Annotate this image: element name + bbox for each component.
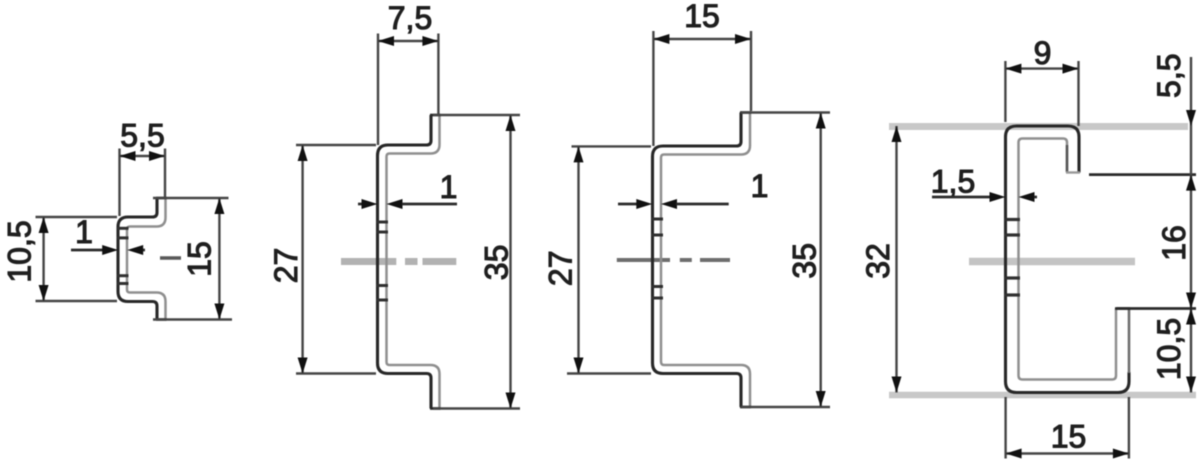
profile P4 inner face outline	[1019, 139, 1117, 380]
dimension 32 of P4	[860, 126, 902, 393]
svg-text:1: 1	[751, 168, 769, 204]
dimension 16 of P4 (right middle)	[1117, 225, 1197, 308]
profile P4 (G32 rail) top extension line gray	[889, 123, 1188, 130]
dimension 5,5 of P1	[120, 118, 166, 217]
svg-text:9: 9	[1034, 35, 1052, 71]
dimension 1 (thickness) of P2	[358, 169, 457, 209]
dimension 5,5 of P4 (right top)	[1089, 53, 1196, 392]
profile P3 web slot tick marks	[651, 219, 663, 298]
svg-text:5,5: 5,5	[120, 118, 164, 154]
profile P2 (TS35x7.5 rail) centerline	[341, 258, 456, 265]
dimension 27 of P3	[543, 146, 652, 373]
profile P4 bottom extension line gray	[889, 392, 1196, 399]
svg-text:10,5: 10,5	[2, 220, 38, 282]
profile P4 outer face outline	[1006, 126, 1130, 393]
dimension 1 (thickness) of P3	[618, 168, 768, 209]
svg-text:35: 35	[479, 245, 515, 281]
profile P3 inner face outline	[661, 113, 750, 408]
profile P1 web slot tick marks	[117, 228, 129, 283]
profile P3 (TS35x15 rail) centerline	[617, 258, 730, 262]
dimension 10,5 of P4 (right bottom)	[1151, 309, 1196, 393]
svg-text:35: 35	[787, 243, 823, 279]
profile P1 inner face outline	[127, 198, 166, 320]
svg-text:1,5: 1,5	[931, 164, 975, 200]
dimension 1,5 (thickness) of P4	[931, 164, 1037, 203]
profile P1 (TS15 rail) centerline dash	[160, 256, 181, 260]
dimension 15 of P3	[653, 0, 751, 146]
svg-text:10,5: 10,5	[1151, 318, 1187, 380]
svg-text:15: 15	[182, 241, 218, 277]
profile P4 web slot tick marks	[1004, 220, 1020, 296]
dimension 1 (thickness) of P1	[71, 214, 145, 255]
svg-text:32: 32	[860, 243, 896, 279]
dimension 7,5 of P2	[378, 0, 438, 145]
dimension 27 of P2	[268, 145, 376, 374]
svg-text:27: 27	[543, 251, 579, 287]
dimension 35 of P2	[433, 115, 520, 409]
svg-text:16: 16	[1156, 225, 1192, 261]
svg-text:7,5: 7,5	[388, 0, 432, 36]
dimension 10,5 of P1	[2, 217, 118, 301]
profile P2 inner face outline	[387, 115, 440, 409]
profile P2 lip end cuts	[430, 115, 441, 409]
profile P1 lip end cuts	[156, 198, 167, 320]
svg-text:1: 1	[75, 214, 93, 250]
profile P2 outer face outline	[378, 115, 432, 409]
profile P2 web slot tick marks	[376, 222, 388, 300]
profile P4 centerline	[969, 258, 1135, 266]
profile P4 lip end cuts	[1066, 173, 1130, 309]
svg-text:1: 1	[440, 169, 458, 205]
profile P3 outer face outline	[653, 113, 742, 408]
svg-text:15: 15	[1051, 419, 1087, 455]
profile P3 lip end cuts	[740, 113, 751, 408]
dimension 9 of P4	[1005, 35, 1078, 126]
dimension 15 of P1	[153, 198, 232, 320]
profile P1 outer face outline	[118, 198, 157, 320]
dimension 35 of P3	[741, 113, 830, 408]
svg-text:27: 27	[268, 248, 304, 284]
dimension 15 of P4 (bottom)	[1006, 397, 1129, 459]
svg-text:15: 15	[684, 0, 720, 34]
svg-text:5,5: 5,5	[1151, 53, 1187, 97]
